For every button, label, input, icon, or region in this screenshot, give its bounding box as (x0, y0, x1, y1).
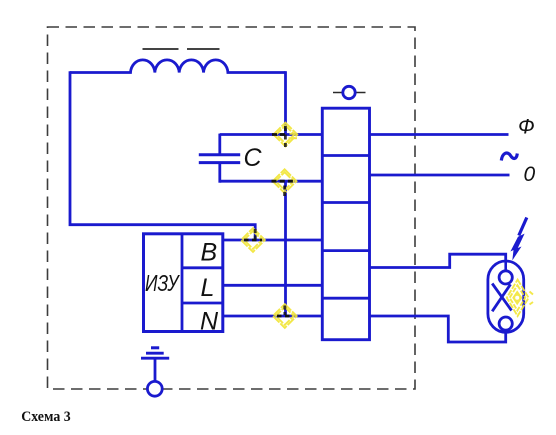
wire left drop from inductor to ИЗУ B node (70, 71, 255, 240)
highlight marker on node N junction (273, 304, 297, 328)
wire B to terminal block (223, 239, 322, 242)
svg-text:C: C (244, 144, 263, 172)
wire capacitor top rail (220, 133, 322, 136)
highlight marker on node at capacitor bottom rail (273, 169, 297, 193)
wire vertical bus (284, 71, 287, 134)
svg-text:Схема 3: Схема 3 (21, 409, 70, 425)
lamp EL1 (488, 261, 524, 333)
highlight marker on node at capacitor top rail (274, 123, 298, 147)
dashed enclosure border (48, 27, 416, 389)
lightning bolt arrow (510, 218, 526, 261)
inductor L1 (70, 60, 286, 73)
wire phase output (370, 133, 509, 136)
dark dashes on wire at capacitor top node (272, 133, 286, 136)
dark dashes on wire at capacitor bottom node (272, 180, 294, 183)
wire L to terminal block (223, 284, 322, 287)
dark dashes on wire at N junction (277, 315, 293, 318)
wire neutral output (370, 174, 510, 177)
svg-text:0: 0 (524, 163, 536, 186)
ground symbol (141, 348, 169, 396)
inductor core lines (143, 48, 179, 50)
wire vertical bus lower section (284, 181, 287, 316)
ИЗУ block U1 (144, 234, 223, 332)
svg-text:Ф: Ф (518, 116, 535, 139)
dark dashes on wire at B junction (244, 239, 262, 242)
wire N to terminal block (223, 315, 322, 318)
svg-text:ИЗУ: ИЗУ (145, 270, 180, 296)
capacitor C (199, 134, 240, 183)
svg-text:L: L (201, 274, 215, 302)
highlight scribble on lamp (507, 280, 533, 316)
svg-text:N: N (200, 308, 219, 336)
highlight marker on node B junction (241, 228, 265, 252)
wire terminal block to lamp bottom (370, 316, 506, 342)
connector symbol above terminal block (333, 86, 366, 98)
terminal block X1 (322, 108, 369, 340)
wire terminal block to lamp top (370, 254, 506, 267)
wire capacitor bottom rail (220, 180, 322, 183)
label ~ (501, 153, 517, 161)
svg-text:B: B (201, 239, 218, 267)
